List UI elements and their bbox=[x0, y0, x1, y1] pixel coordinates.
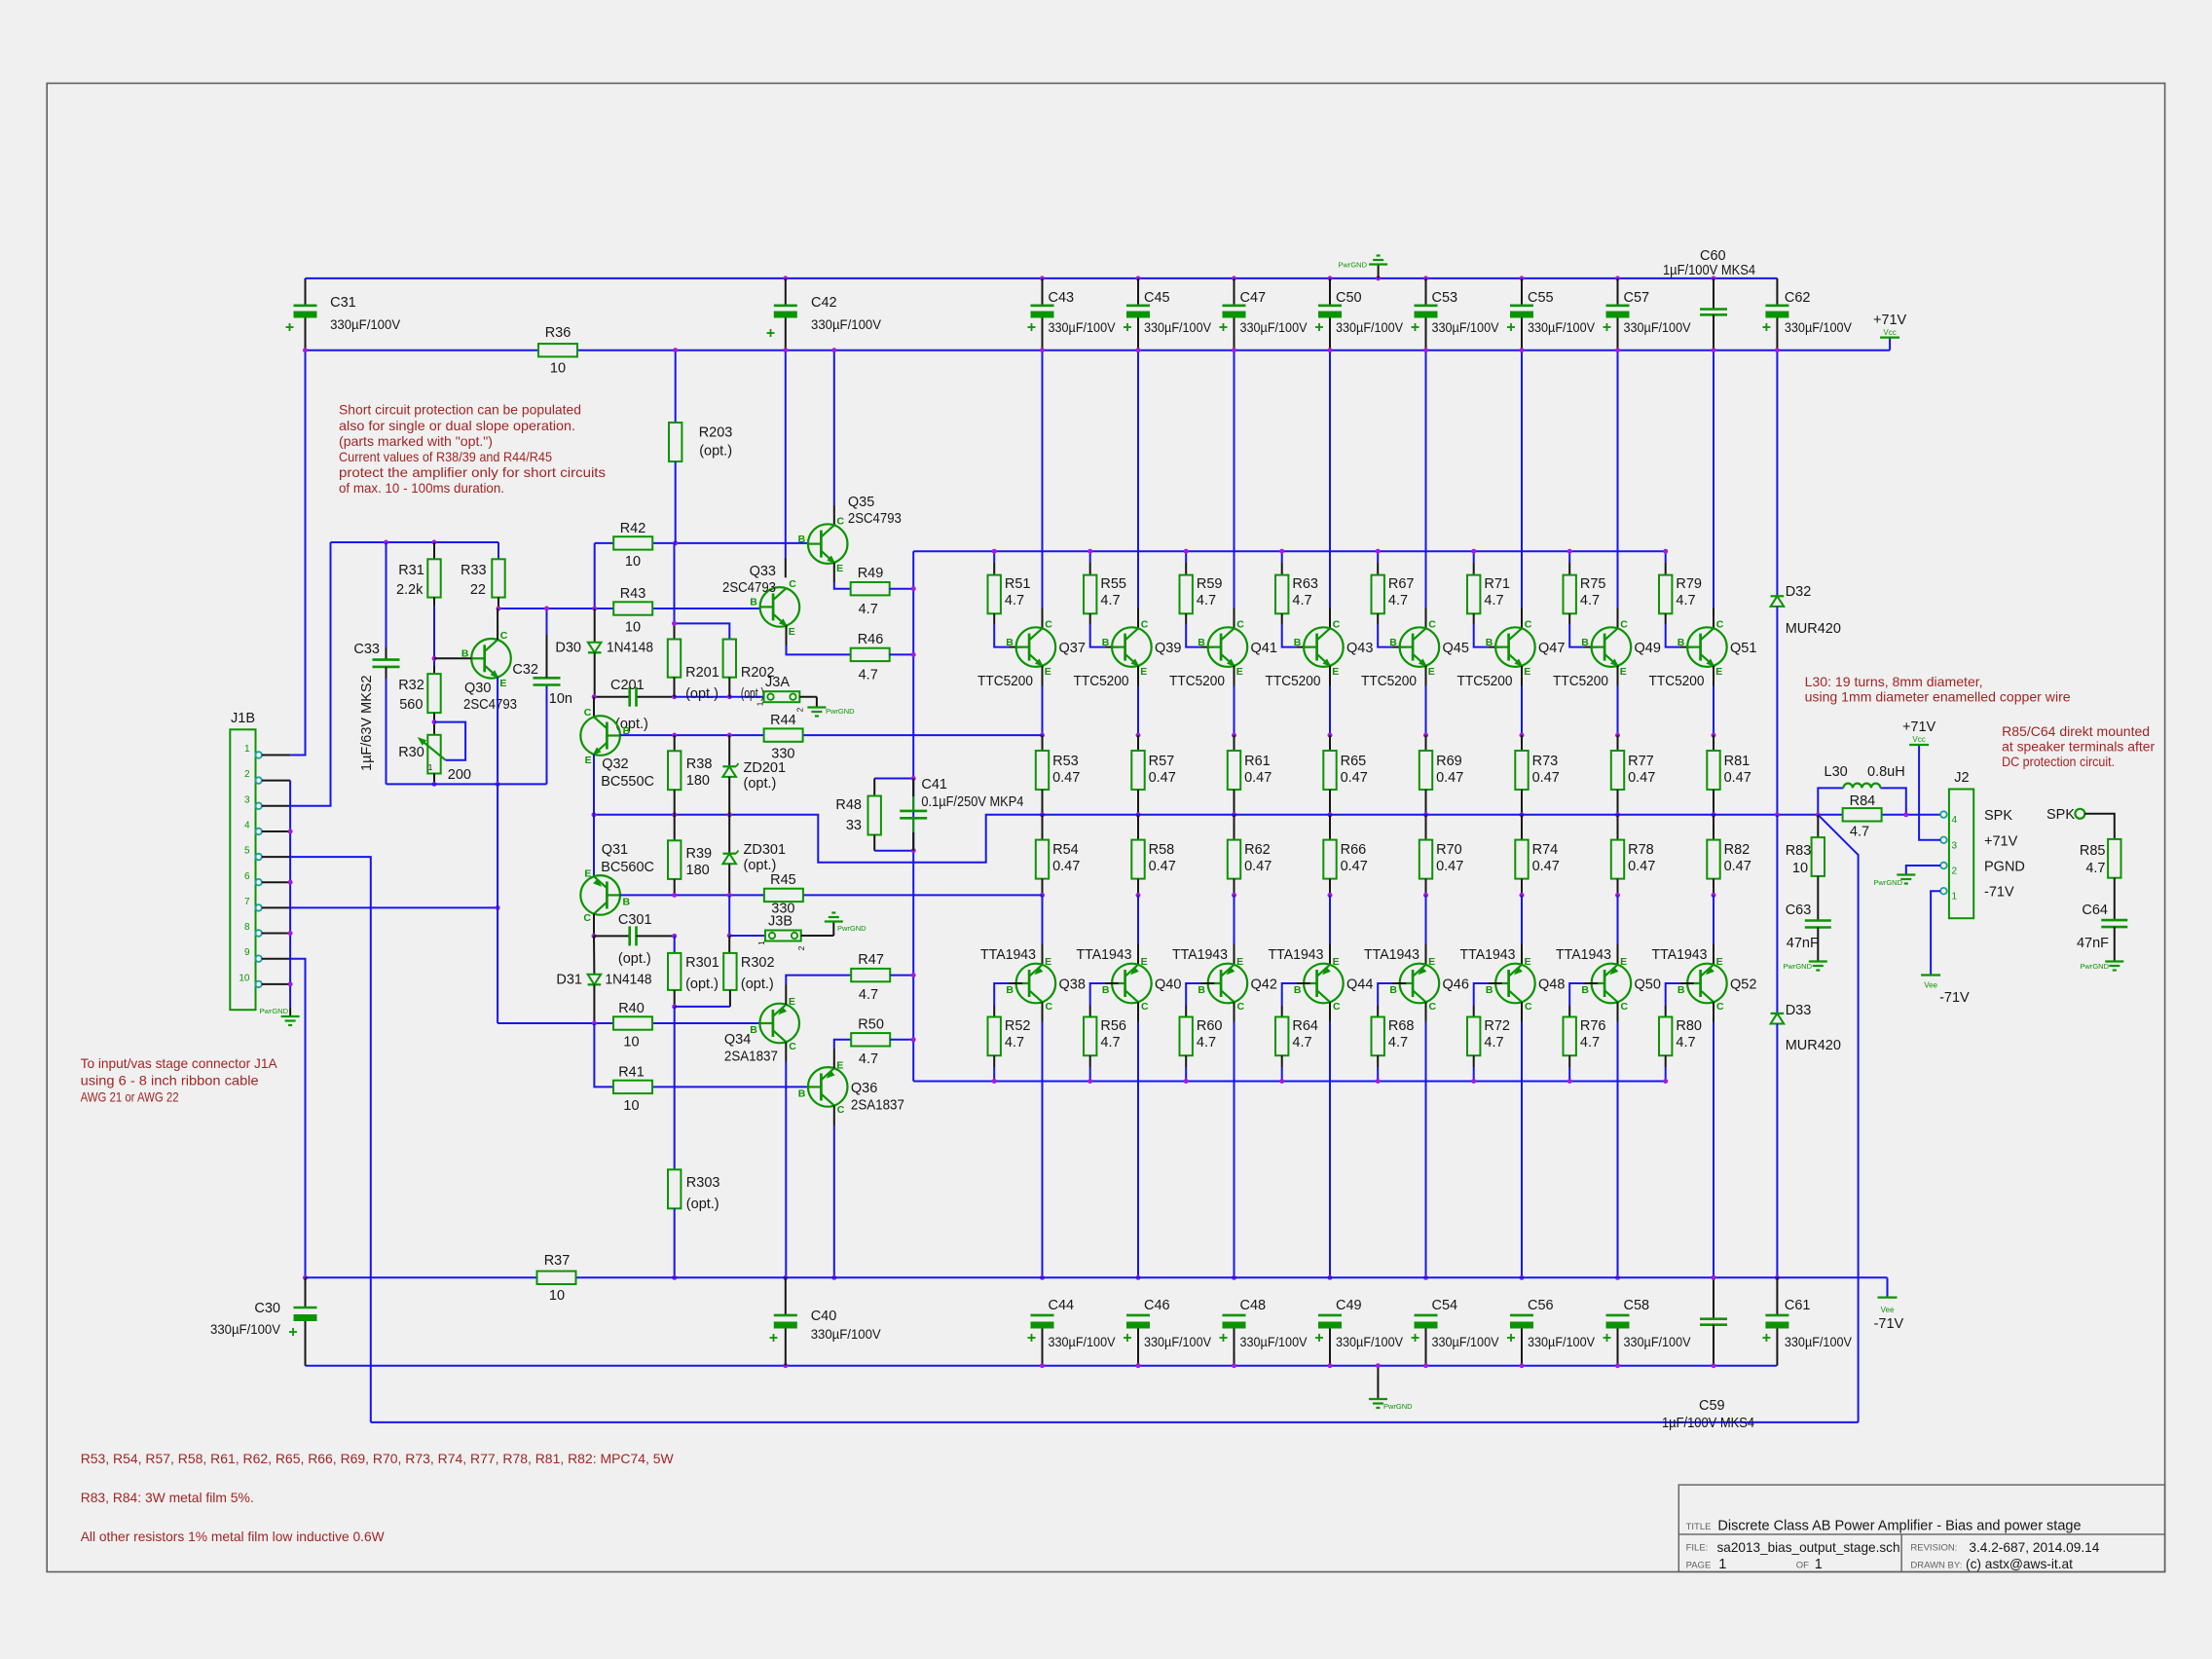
wire emitter Q42 bbox=[1234, 895, 1235, 964]
svg-text:4.7: 4.7 bbox=[1850, 825, 1869, 840]
svg-text:330µF/100V: 330µF/100V bbox=[1624, 319, 1692, 335]
resistor R37 bbox=[537, 1253, 576, 1304]
svg-text:33: 33 bbox=[846, 818, 862, 833]
zener diode ZD301 bbox=[722, 815, 786, 896]
svg-text:R49: R49 bbox=[858, 566, 884, 581]
svg-text:R83, R84: 3W metal film 5%.: R83, R84: 3W metal film 5%. bbox=[81, 1490, 254, 1505]
svg-text:1: 1 bbox=[1815, 1557, 1823, 1572]
svg-text:B: B bbox=[1581, 984, 1589, 996]
svg-text:B: B bbox=[1294, 637, 1302, 648]
resistor R31 bbox=[396, 542, 441, 674]
svg-text:DRAWN BY:: DRAWN BY: bbox=[1910, 1561, 1962, 1571]
resistor R38 bbox=[668, 735, 712, 815]
capacitor C50 bbox=[1315, 278, 1404, 350]
wire collector column Q41 bbox=[1232, 348, 1236, 628]
svg-text:D32: D32 bbox=[1786, 584, 1812, 600]
svg-text:Q36: Q36 bbox=[851, 1081, 877, 1096]
svg-text:R303: R303 bbox=[686, 1175, 720, 1191]
svg-text:C: C bbox=[1621, 1001, 1629, 1013]
svg-text:R55: R55 bbox=[1100, 576, 1126, 592]
ground PwrGND J1B bbox=[259, 1007, 299, 1025]
capacitor C45 bbox=[1124, 278, 1212, 350]
svg-text:180: 180 bbox=[686, 773, 710, 789]
svg-text:10: 10 bbox=[625, 620, 641, 636]
wire pin7 to Q30 emitter bbox=[290, 905, 499, 910]
svg-text:4.7: 4.7 bbox=[1580, 1035, 1600, 1051]
transistor Q50 TTA1943 bbox=[1556, 947, 1661, 1013]
svg-text:PGND: PGND bbox=[1984, 860, 2025, 875]
capacitor C53 bbox=[1412, 278, 1500, 350]
svg-text:R38: R38 bbox=[686, 756, 713, 772]
capacitor C33 bbox=[353, 542, 399, 784]
svg-text:PwrGND: PwrGND bbox=[259, 1007, 288, 1015]
resistor R203 bbox=[669, 348, 732, 543]
transistor Q33 2SC4793 bbox=[722, 564, 799, 638]
svg-text:J3A: J3A bbox=[765, 675, 790, 690]
svg-text:(opt.): (opt.) bbox=[686, 1197, 719, 1212]
transistor Q32 BC550C bbox=[580, 707, 654, 790]
resistor R73 bbox=[1515, 735, 1560, 817]
svg-text:BC550C: BC550C bbox=[601, 774, 654, 790]
connector J1B pin 4 bbox=[244, 821, 290, 835]
svg-text:C42: C42 bbox=[811, 295, 837, 311]
svg-text:4: 4 bbox=[244, 821, 250, 831]
svg-text:4.7: 4.7 bbox=[859, 668, 878, 683]
connector J1B pin 7 bbox=[244, 897, 290, 911]
svg-text:10: 10 bbox=[549, 1288, 565, 1304]
svg-text:E: E bbox=[1045, 666, 1051, 678]
wire Q35 collector bbox=[831, 348, 836, 525]
svg-text:1N4148: 1N4148 bbox=[607, 641, 653, 656]
svg-text:PwrGND: PwrGND bbox=[1338, 261, 1367, 270]
svg-text:3: 3 bbox=[244, 794, 250, 805]
svg-text:C55: C55 bbox=[1528, 290, 1554, 306]
wire collector column Q49 bbox=[1615, 348, 1620, 628]
svg-text:4.7: 4.7 bbox=[1388, 1035, 1408, 1051]
wire J2 pin2 ground bbox=[1906, 866, 1940, 875]
resistor R39 bbox=[668, 815, 712, 896]
wire R41 line bbox=[594, 1023, 808, 1087]
transistor Q46 TTA1943 bbox=[1364, 947, 1469, 1013]
transistor Q39 TTC5200 bbox=[1074, 618, 1182, 689]
svg-text:J2: J2 bbox=[1954, 770, 1969, 786]
resistor R48 bbox=[835, 779, 881, 851]
svg-text:R47: R47 bbox=[858, 952, 884, 968]
svg-text:330µF/100V: 330µF/100V bbox=[1144, 1334, 1212, 1349]
svg-text:330µF/100V: 330µF/100V bbox=[330, 316, 401, 332]
svg-text:R70: R70 bbox=[1436, 842, 1462, 858]
svg-text:R75: R75 bbox=[1580, 576, 1606, 592]
wire Q33 emitter to R46 bbox=[787, 626, 851, 655]
svg-text:0.47: 0.47 bbox=[1244, 859, 1272, 874]
transistor Q49 TTC5200 bbox=[1553, 618, 1661, 689]
svg-text:Q48: Q48 bbox=[1538, 977, 1565, 993]
svg-text:L30: 19 turns, 8mm diameter,: L30: 19 turns, 8mm diameter, bbox=[1805, 674, 1983, 689]
svg-text:10n: 10n bbox=[549, 691, 572, 707]
wire emitter Q52 bbox=[1713, 895, 1714, 964]
svg-text:B: B bbox=[1006, 637, 1014, 648]
wire emitter Q38 bbox=[1042, 895, 1044, 964]
resistor R74 bbox=[1515, 815, 1560, 898]
svg-text:C: C bbox=[1428, 618, 1436, 630]
wire C41 node bottom bbox=[874, 848, 916, 853]
transistor Q31 BC560C bbox=[580, 842, 654, 924]
diode D33 MUR420 bbox=[1771, 815, 1841, 1280]
wire ZD301 to J3B node bbox=[727, 895, 765, 938]
wire Q31 base line bbox=[620, 893, 764, 898]
svg-text:E: E bbox=[1525, 956, 1531, 968]
svg-text:R63: R63 bbox=[1292, 576, 1318, 592]
capacitor C61 bbox=[1762, 1277, 1852, 1365]
svg-text:B: B bbox=[750, 1024, 757, 1036]
resistor R55 bbox=[1084, 549, 1126, 647]
svg-text:R61: R61 bbox=[1244, 754, 1271, 769]
svg-text:OF: OF bbox=[1796, 1561, 1809, 1571]
svg-text:(opt.): (opt.) bbox=[618, 951, 651, 967]
inductor L30 bbox=[1825, 764, 1905, 788]
ground PwrGND C63 bbox=[1783, 962, 1826, 972]
wire collector column Q47 bbox=[1520, 348, 1525, 628]
svg-text:R67: R67 bbox=[1388, 576, 1415, 592]
wire collector column Q51 bbox=[1712, 348, 1716, 628]
svg-text:4.7: 4.7 bbox=[1100, 1035, 1120, 1051]
wire top ground bus bbox=[306, 276, 1778, 280]
note short circuit protection bbox=[339, 402, 606, 497]
svg-text:200: 200 bbox=[448, 767, 471, 783]
svg-text:3.4.2-687, 2014.09.14: 3.4.2-687, 2014.09.14 bbox=[1969, 1539, 2099, 1555]
resistor R66 bbox=[1323, 815, 1368, 898]
svg-text:10: 10 bbox=[625, 554, 641, 570]
svg-text:3: 3 bbox=[1952, 840, 1958, 851]
wire Q30 collector bbox=[497, 608, 498, 640]
svg-text:R71: R71 bbox=[1484, 576, 1510, 592]
transistor Q42 TTA1943 bbox=[1172, 947, 1277, 1013]
wire Q30E column lower bbox=[497, 784, 498, 1023]
wire Q34 emitter to R47 bbox=[786, 976, 851, 1005]
wire R201 R202 top node bbox=[672, 543, 729, 640]
capacitor C63 bbox=[1786, 903, 1831, 962]
svg-text:4.7: 4.7 bbox=[1197, 1035, 1216, 1051]
svg-text:R62: R62 bbox=[1244, 842, 1271, 858]
svg-text:C: C bbox=[789, 1041, 796, 1052]
svg-text:1µF/63V MKS2: 1µF/63V MKS2 bbox=[359, 675, 375, 771]
svg-text:B: B bbox=[1294, 984, 1302, 996]
wire +71V bus bbox=[306, 338, 1891, 350]
diode D32 MUR420 bbox=[1771, 348, 1841, 817]
connector J1B pin 5 bbox=[244, 846, 290, 861]
svg-text:C: C bbox=[1429, 1001, 1437, 1013]
svg-text:BC560C: BC560C bbox=[601, 860, 654, 875]
svg-text:Q30: Q30 bbox=[464, 681, 491, 696]
svg-text:C: C bbox=[584, 707, 592, 719]
resistor R57 bbox=[1131, 735, 1176, 817]
capacitor C201 bbox=[610, 678, 648, 732]
wire pin9 to -71V bbox=[290, 959, 308, 1280]
resistor R44 bbox=[764, 713, 803, 762]
svg-text:1: 1 bbox=[756, 940, 766, 945]
svg-text:C: C bbox=[1620, 618, 1628, 630]
svg-text:C: C bbox=[837, 515, 845, 527]
svg-text:C59: C59 bbox=[1699, 1398, 1725, 1414]
connector J3A bbox=[756, 675, 817, 712]
wire bottom base-drive bus bbox=[913, 1081, 1666, 1083]
svg-text:2: 2 bbox=[795, 707, 805, 712]
svg-text:Q49: Q49 bbox=[1635, 641, 1661, 656]
svg-text:4.7: 4.7 bbox=[1005, 593, 1024, 608]
svg-text:R32: R32 bbox=[398, 678, 424, 693]
svg-text:E: E bbox=[1236, 666, 1243, 678]
svg-text:330µF/100V: 330µF/100V bbox=[1785, 319, 1853, 335]
wire Q31 collector node bbox=[592, 914, 597, 939]
svg-text:0.47: 0.47 bbox=[1149, 859, 1176, 874]
transistor Q38 TTA1943 bbox=[980, 947, 1086, 1013]
power -71V Vee flag bbox=[1874, 1298, 1904, 1332]
svg-text:0.47: 0.47 bbox=[1052, 770, 1080, 786]
wire emitter Q46 bbox=[1425, 895, 1427, 964]
svg-text:560: 560 bbox=[399, 697, 423, 713]
svg-text:Current values of R38/39 and R: Current values of R38/39 and R44/R45 bbox=[339, 449, 552, 464]
svg-text:C: C bbox=[1716, 1001, 1724, 1013]
svg-text:To input/vas stage connector J: To input/vas stage connector J1A bbox=[81, 1055, 278, 1071]
resistor R68 bbox=[1372, 983, 1415, 1084]
resistor R70 bbox=[1419, 815, 1464, 898]
svg-text:4.7: 4.7 bbox=[859, 987, 878, 1003]
svg-text:C: C bbox=[789, 578, 796, 590]
diode D31 1N4148 bbox=[556, 936, 651, 1023]
connector J1B pin 9 bbox=[244, 947, 290, 962]
wire Q36 collector bbox=[831, 1106, 836, 1280]
svg-text:R41: R41 bbox=[618, 1065, 645, 1081]
svg-text:2: 2 bbox=[244, 769, 250, 780]
svg-text:1: 1 bbox=[244, 744, 250, 755]
svg-text:AWG 21 or AWG 22: AWG 21 or AWG 22 bbox=[81, 1089, 179, 1105]
svg-text:TTC5200: TTC5200 bbox=[1553, 674, 1608, 689]
svg-text:C: C bbox=[1046, 1001, 1053, 1013]
svg-text:Q46: Q46 bbox=[1443, 977, 1469, 993]
zener diode ZD201 bbox=[722, 735, 786, 815]
resistor R302 bbox=[675, 953, 775, 1007]
wire node C201 bbox=[592, 694, 764, 699]
svg-text:R203: R203 bbox=[699, 424, 733, 440]
svg-text:C31: C31 bbox=[330, 295, 356, 311]
svg-text:D33: D33 bbox=[1786, 1003, 1812, 1018]
svg-text:C56: C56 bbox=[1528, 1298, 1554, 1313]
svg-text:C: C bbox=[1141, 1001, 1149, 1013]
svg-text:using 1mm diameter enamelled c: using 1mm diameter enamelled copper wire bbox=[1805, 689, 2071, 705]
ground PwrGND J3B bbox=[825, 913, 866, 937]
resistor R80 bbox=[1659, 983, 1702, 1084]
svg-text:0.47: 0.47 bbox=[1628, 770, 1655, 786]
svg-text:4.7: 4.7 bbox=[1292, 593, 1311, 608]
svg-text:D31: D31 bbox=[556, 973, 582, 988]
svg-text:0.1µF/250V MKP4: 0.1µF/250V MKP4 bbox=[921, 794, 1023, 810]
svg-text:TTC5200: TTC5200 bbox=[1266, 674, 1321, 689]
svg-text:sa2013_bias_output_stage.sch: sa2013_bias_output_stage.sch bbox=[1717, 1539, 1900, 1555]
svg-text:Q35: Q35 bbox=[848, 495, 874, 510]
transistor Q48 TTA1943 bbox=[1460, 947, 1566, 1013]
svg-text:E: E bbox=[585, 755, 592, 766]
resistor R52 bbox=[988, 983, 1031, 1084]
capacitor C301 bbox=[594, 912, 677, 967]
svg-text:2SA1837: 2SA1837 bbox=[724, 1050, 778, 1065]
wire J2 pin1 -71V bbox=[1931, 891, 1940, 975]
wire J1B ground column bbox=[288, 781, 293, 1008]
svg-text:C301: C301 bbox=[618, 912, 652, 928]
wire collector column Q44 bbox=[1328, 1002, 1333, 1280]
capacitor C46 bbox=[1124, 1298, 1212, 1368]
svg-text:using 6 - 8 inch ribbon cable: using 6 - 8 inch ribbon cable bbox=[81, 1072, 259, 1088]
wire emitter Q44 bbox=[1329, 895, 1331, 964]
svg-text:C57: C57 bbox=[1624, 290, 1650, 306]
svg-text:C43: C43 bbox=[1049, 290, 1075, 306]
svg-text:MUR420: MUR420 bbox=[1786, 1038, 1841, 1053]
svg-text:All other resistors 1% metal f: All other resistors 1% metal film low in… bbox=[81, 1529, 386, 1544]
svg-text:330µF/100V: 330µF/100V bbox=[1049, 1334, 1117, 1349]
wire pin1 to +71V bbox=[290, 348, 308, 755]
svg-text:R68: R68 bbox=[1388, 1018, 1415, 1034]
svg-text:8: 8 bbox=[244, 922, 250, 933]
svg-text:FILE:: FILE: bbox=[1686, 1543, 1709, 1554]
svg-text:TTA1943: TTA1943 bbox=[1652, 947, 1708, 963]
svg-text:Q37: Q37 bbox=[1059, 641, 1086, 656]
connector J1B pin 6 bbox=[244, 871, 290, 886]
connector J1B pin 10 bbox=[239, 973, 290, 987]
resistor R81 bbox=[1707, 735, 1751, 817]
svg-text:E: E bbox=[1524, 666, 1530, 678]
svg-text:C44: C44 bbox=[1049, 1298, 1075, 1313]
capacitor C32 bbox=[512, 607, 572, 785]
svg-text:R83: R83 bbox=[1786, 843, 1812, 859]
svg-text:4.7: 4.7 bbox=[1676, 1035, 1695, 1051]
svg-text:10: 10 bbox=[623, 1035, 639, 1051]
svg-text:C: C bbox=[1141, 618, 1149, 630]
svg-text:330µF/100V: 330µF/100V bbox=[1336, 319, 1404, 335]
capacitor C41 bbox=[900, 777, 1023, 851]
svg-text:C58: C58 bbox=[1624, 1298, 1650, 1313]
label J2 +71V bbox=[1984, 834, 2018, 850]
label J2 PGND bbox=[1984, 860, 2025, 875]
svg-text:4.7: 4.7 bbox=[1484, 1035, 1503, 1051]
svg-text:R56: R56 bbox=[1100, 1018, 1126, 1034]
svg-text:E: E bbox=[836, 1059, 843, 1071]
svg-text:C40: C40 bbox=[811, 1309, 837, 1324]
capacitor C47 bbox=[1220, 278, 1309, 350]
note resistor types 3W bbox=[81, 1490, 254, 1505]
resistor R64 bbox=[1275, 983, 1318, 1084]
svg-text:4.7: 4.7 bbox=[2085, 861, 2105, 876]
svg-text:TTC5200: TTC5200 bbox=[1457, 674, 1513, 689]
svg-text:9: 9 bbox=[244, 947, 250, 958]
resistor R40 bbox=[613, 1001, 652, 1051]
svg-text:4.7: 4.7 bbox=[1100, 593, 1120, 608]
svg-text:E: E bbox=[1620, 666, 1627, 678]
wire bottom ground bus bbox=[306, 1363, 1777, 1368]
transistor Q45 TTC5200 bbox=[1361, 618, 1469, 689]
resistor R33 bbox=[461, 542, 505, 611]
svg-text:Q41: Q41 bbox=[1251, 641, 1277, 656]
svg-text:E: E bbox=[499, 678, 506, 689]
resistor R51 bbox=[988, 549, 1031, 647]
title block file bbox=[1686, 1539, 1900, 1555]
svg-text:R45: R45 bbox=[770, 872, 796, 888]
wire collector column Q48 bbox=[1520, 1002, 1525, 1280]
svg-text:47nF: 47nF bbox=[2077, 936, 2109, 951]
svg-text:Q38: Q38 bbox=[1059, 977, 1086, 993]
capacitor C42 bbox=[767, 278, 882, 350]
svg-text:R78: R78 bbox=[1628, 842, 1654, 858]
power +71V Vcc at J2 bbox=[1902, 719, 1936, 745]
resistor R71 bbox=[1467, 549, 1510, 647]
svg-text:TTA1943: TTA1943 bbox=[1460, 947, 1516, 963]
wire pin5 feedback bbox=[290, 857, 371, 1422]
svg-text:E: E bbox=[789, 996, 795, 1008]
svg-text:R36: R36 bbox=[545, 325, 571, 341]
wire -71V rail bbox=[306, 1277, 1888, 1297]
svg-text:180: 180 bbox=[686, 863, 710, 878]
svg-text:+71V: +71V bbox=[1873, 313, 1907, 328]
svg-text:C48: C48 bbox=[1240, 1298, 1267, 1313]
svg-text:Q32: Q32 bbox=[602, 756, 628, 772]
svg-text:E: E bbox=[1332, 666, 1339, 678]
resistor R58 bbox=[1131, 815, 1176, 898]
svg-text:0.47: 0.47 bbox=[1436, 859, 1463, 874]
connector J2 pin 1 bbox=[1940, 888, 1957, 903]
wire collector column Q42 bbox=[1232, 1002, 1236, 1280]
svg-text:TITLE: TITLE bbox=[1686, 1522, 1712, 1532]
connector J1B pin 8 bbox=[244, 922, 290, 937]
capacitor C55 bbox=[1507, 278, 1596, 350]
resistor R53 bbox=[1036, 735, 1081, 817]
svg-text:E: E bbox=[789, 626, 795, 638]
svg-text:E: E bbox=[1620, 956, 1627, 968]
svg-text:2: 2 bbox=[1952, 866, 1958, 877]
svg-text:C54: C54 bbox=[1432, 1298, 1458, 1313]
svg-text:C33: C33 bbox=[353, 642, 380, 657]
svg-text:R44: R44 bbox=[770, 713, 796, 728]
wire collector column Q37 bbox=[1040, 348, 1045, 628]
svg-text:R302: R302 bbox=[741, 955, 775, 971]
svg-text:E: E bbox=[1715, 666, 1722, 678]
svg-text:C: C bbox=[1716, 618, 1724, 630]
wire Q30 emitter bbox=[496, 678, 500, 787]
svg-text:-71V: -71V bbox=[1939, 990, 1970, 1006]
diode D30 1N4148 bbox=[555, 608, 653, 697]
svg-text:(opt.): (opt.) bbox=[744, 858, 777, 873]
title block page bbox=[1686, 1557, 1823, 1572]
svg-text:0.47: 0.47 bbox=[1532, 859, 1560, 874]
wire R302 column bbox=[728, 936, 730, 953]
wire L30 branch bbox=[1816, 788, 1909, 817]
svg-text:of max. 10 - 100ms duration.: of max. 10 - 100ms duration. bbox=[339, 480, 504, 496]
svg-text:330µF/100V: 330µF/100V bbox=[811, 1326, 882, 1342]
svg-text:E: E bbox=[1045, 956, 1051, 968]
svg-text:1: 1 bbox=[1952, 892, 1958, 903]
svg-text:B: B bbox=[1006, 984, 1014, 996]
svg-text:B: B bbox=[1486, 637, 1493, 648]
wire bottom feedback run bbox=[371, 1421, 1859, 1423]
svg-text:PAGE: PAGE bbox=[1686, 1561, 1712, 1571]
svg-text:4.7: 4.7 bbox=[1580, 593, 1600, 608]
resistor R202 bbox=[723, 640, 775, 703]
svg-text:R81: R81 bbox=[1724, 754, 1751, 769]
resistor R65 bbox=[1323, 735, 1368, 817]
wire bias top bus bbox=[331, 540, 499, 545]
resistor R32 bbox=[398, 674, 441, 735]
svg-text:Vee: Vee bbox=[1881, 1306, 1895, 1314]
svg-text:0.8uH: 0.8uH bbox=[1867, 764, 1905, 780]
capacitor C58 bbox=[1604, 1298, 1692, 1368]
svg-text:TTA1943: TTA1943 bbox=[980, 947, 1036, 963]
